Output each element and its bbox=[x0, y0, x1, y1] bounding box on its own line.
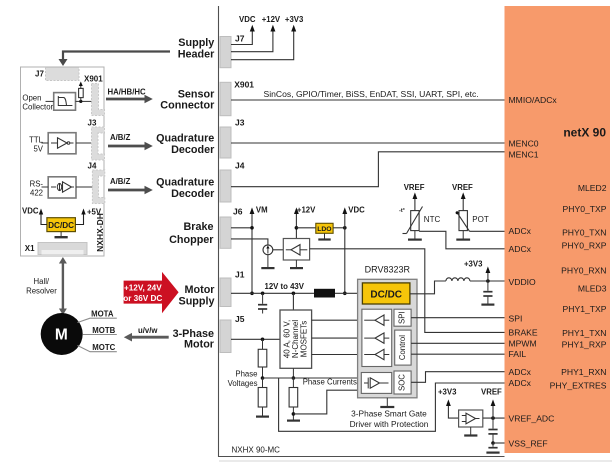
connector J1 (main board) bbox=[220, 278, 231, 307]
svg-text:ADCx: ADCx bbox=[509, 378, 532, 388]
connector J4 (main board) bbox=[220, 170, 231, 202]
svg-text:or 36V DC: or 36V DC bbox=[123, 294, 162, 303]
NXHX 90-MC board border bbox=[219, 6, 505, 457]
wire RS-422 output bbox=[76, 186, 92, 188]
svg-text:MOTB: MOTB bbox=[92, 326, 115, 335]
wire POT tap to ADCx bbox=[470, 230, 505, 232]
wire MPWM bbox=[411, 342, 504, 344]
wire rail to MOSFET box bbox=[292, 293, 294, 310]
svg-text:VM: VM bbox=[256, 206, 268, 215]
node VSS_REF junction bbox=[491, 441, 495, 445]
connector J6 (main board) bbox=[220, 217, 231, 248]
connector J7 (main board) bbox=[220, 37, 231, 68]
svg-text:12V to 43V: 12V to 43V bbox=[265, 282, 305, 291]
svg-text:X901: X901 bbox=[234, 80, 254, 90]
ground (comparator) bbox=[290, 267, 303, 269]
svg-text:MLED2: MLED2 bbox=[578, 183, 607, 193]
svg-text:Control: Control bbox=[398, 335, 407, 360]
svg-text:PHY0_RXN: PHY0_RXN bbox=[561, 266, 606, 276]
svg-text:J4: J4 bbox=[88, 162, 97, 171]
ground (current sensor) bbox=[261, 267, 274, 269]
svg-text:PHY_EXTRES: PHY_EXTRES bbox=[550, 381, 607, 391]
svg-text:VDDIO: VDDIO bbox=[509, 277, 537, 287]
svg-text:Decoder: Decoder bbox=[171, 144, 215, 156]
svg-text:Supply: Supply bbox=[178, 37, 214, 49]
wire J6 pin2 to current sensor bbox=[231, 239, 268, 245]
connector J3 (daughter board) bbox=[92, 127, 105, 160]
connector J7 (daughter board) bbox=[46, 68, 80, 81]
DC/DC converter (DRV8323R) bbox=[362, 283, 410, 304]
svg-text:X1: X1 bbox=[25, 244, 35, 253]
svg-text:PHY0_RXP: PHY0_RXP bbox=[562, 241, 607, 251]
svg-text:X901: X901 bbox=[84, 75, 103, 84]
motor M bbox=[41, 313, 83, 355]
SPI block (DRV8323R) bbox=[394, 309, 411, 326]
svg-text:VREF_ADC: VREF_ADC bbox=[509, 413, 555, 423]
connector J5 (main board) bbox=[220, 320, 231, 353]
capacitor (VREF_ADC) bbox=[492, 418, 494, 429]
LDO regulator bbox=[316, 223, 333, 233]
wire divider column 1 bbox=[262, 339, 264, 349]
wire gate drive 1 bbox=[312, 319, 362, 321]
ground (VDDIO cap) bbox=[481, 304, 494, 306]
svg-text:+5V: +5V bbox=[87, 208, 102, 217]
svg-text:+3V3: +3V3 bbox=[438, 388, 457, 397]
wire comparator bottom to ground bbox=[295, 260, 297, 267]
wire MENC1 bbox=[231, 152, 505, 187]
ground (NTC) bbox=[408, 239, 422, 241]
svg-text:Brake: Brake bbox=[183, 221, 213, 233]
node pull-up junction bbox=[79, 100, 82, 103]
svg-text:SOC: SOC bbox=[398, 374, 407, 391]
svg-text:422: 422 bbox=[30, 188, 43, 197]
ground (VSS_REF) bbox=[486, 452, 499, 454]
svg-text:DC/DC: DC/DC bbox=[370, 289, 402, 300]
wire sensor to ground bbox=[267, 255, 269, 268]
node MOTA bbox=[78, 318, 117, 322]
wire DC/DC to VDDIO bbox=[410, 281, 446, 294]
svg-text:3-Phase Smart Gate: 3-Phase Smart Gate bbox=[351, 408, 427, 418]
arrow A/B/Z (J3) bbox=[108, 145, 146, 148]
svg-text:VDC: VDC bbox=[22, 207, 39, 216]
svg-text:RS-: RS- bbox=[30, 179, 44, 188]
node shunt bottom bbox=[292, 412, 296, 416]
wire VM rail bbox=[251, 214, 253, 294]
current sensor circle bbox=[263, 245, 273, 255]
wire TTL input bbox=[42, 142, 49, 144]
svg-text:Chopper: Chopper bbox=[169, 234, 214, 246]
node VREF junction bbox=[491, 416, 495, 420]
svg-text:MOTC: MOTC bbox=[92, 343, 115, 352]
svg-text:Phase Currents: Phase Currents bbox=[303, 378, 357, 387]
wire +12V to LDO bbox=[296, 227, 315, 229]
page divider line bbox=[219, 460, 612, 462]
svg-text:ADCx: ADCx bbox=[509, 226, 532, 236]
svg-text:HA/HB/HC: HA/HB/HC bbox=[108, 88, 146, 97]
wire inductor to VDDIO pin bbox=[470, 280, 505, 282]
svg-text:Header: Header bbox=[178, 48, 215, 60]
inductor/filter (black) on rail bbox=[314, 289, 335, 298]
connector X901 (main board) bbox=[220, 82, 231, 115]
wire VDC out bbox=[41, 214, 47, 225]
svg-text:PHY1_RXP: PHY1_RXP bbox=[562, 340, 607, 350]
svg-text:Supply: Supply bbox=[179, 295, 215, 307]
wire open collector output bbox=[76, 100, 92, 102]
svg-text:5V: 5V bbox=[33, 144, 43, 153]
wire SPI bbox=[411, 317, 504, 319]
svg-text:VSS_REF: VSS_REF bbox=[509, 438, 548, 448]
svg-text:Quadrature: Quadrature bbox=[156, 133, 214, 145]
ground (DRV8323R) bbox=[386, 398, 388, 406]
svg-text:Hall/: Hall/ bbox=[34, 277, 50, 286]
svg-text:netX 90: netX 90 bbox=[563, 126, 606, 140]
wire SOC to ADCx bbox=[411, 372, 504, 383]
svg-text:NXHX 90-MC: NXHX 90-MC bbox=[232, 446, 281, 455]
svg-text:MENC0: MENC0 bbox=[509, 138, 539, 148]
resistor NTC bbox=[411, 211, 419, 231]
svg-text:MOSFETs: MOSFETs bbox=[299, 321, 308, 357]
svg-text:VREF: VREF bbox=[452, 183, 473, 192]
svg-text:+12V, 24V: +12V, 24V bbox=[124, 284, 162, 293]
connector X901 (daughter board) bbox=[92, 84, 105, 116]
svg-text:NXHX-DH: NXHX-DH bbox=[95, 213, 105, 252]
wire +3V3 (VREF buffer) bbox=[448, 406, 458, 419]
wire NTC to ground bbox=[414, 231, 416, 239]
svg-text:PHY1_TXN: PHY1_TXN bbox=[562, 328, 606, 338]
node VDC/LDO junction bbox=[343, 226, 347, 230]
arrow motor supply (red) bbox=[124, 272, 179, 313]
wire open collector input bbox=[46, 100, 54, 102]
ground (POT) bbox=[456, 239, 470, 241]
svg-text:ADCx: ADCx bbox=[509, 367, 532, 377]
svg-text:-t°: -t° bbox=[399, 208, 405, 214]
node MOTC bbox=[78, 346, 117, 352]
svg-text:ADCx: ADCx bbox=[509, 244, 532, 254]
resistor phase voltage upper bbox=[258, 349, 267, 367]
wire VSS_REF bbox=[493, 442, 505, 444]
svg-text:DC/DC: DC/DC bbox=[48, 221, 74, 230]
connector J4 (daughter board) bbox=[92, 170, 104, 204]
NXHX-DH daughter board border bbox=[21, 67, 105, 256]
svg-text:Open: Open bbox=[22, 94, 41, 103]
wire motor supply rail 12V to 43V bbox=[231, 292, 362, 294]
comparator (brake chopper) bbox=[283, 239, 309, 261]
wire +5V out bbox=[75, 214, 83, 225]
wire RS-422 input bbox=[42, 186, 49, 188]
node divider tap bbox=[261, 376, 265, 380]
svg-text:J1: J1 bbox=[235, 270, 245, 280]
svg-text:Decoder: Decoder bbox=[171, 188, 215, 200]
wire +3V3 (supply header) bbox=[231, 31, 294, 60]
node VM/rail junction bbox=[250, 292, 254, 296]
svg-text:+12V: +12V bbox=[262, 15, 281, 24]
arrow u/v/w bbox=[131, 336, 169, 339]
svg-text:VDC: VDC bbox=[348, 206, 365, 215]
ground (LDO) bbox=[324, 233, 326, 238]
wire shunt sense to DRV buffer bbox=[293, 390, 361, 414]
svg-text:Phase: Phase bbox=[235, 369, 257, 378]
svg-text:J6: J6 bbox=[233, 207, 243, 217]
svg-text:VREF: VREF bbox=[481, 388, 502, 397]
svg-text:MPWM: MPWM bbox=[509, 338, 537, 348]
svg-text:PHY0_TXP: PHY0_TXP bbox=[563, 204, 607, 214]
wire VDC rail bbox=[344, 214, 346, 294]
svg-text:DRV8323R: DRV8323R bbox=[365, 265, 411, 275]
svg-text:Quadrature: Quadrature bbox=[156, 177, 214, 189]
wire comparator output to BRAKE bbox=[310, 249, 505, 333]
svg-text:PHY1_TXP: PHY1_TXP bbox=[563, 304, 607, 314]
wire gate drive 2 bbox=[312, 337, 362, 339]
svg-text:+3V3: +3V3 bbox=[285, 15, 304, 24]
resistor phase voltage lower bbox=[258, 388, 267, 408]
svg-text:TTL: TTL bbox=[29, 135, 44, 144]
svg-text:NTC: NTC bbox=[424, 215, 441, 224]
node VDDIO junction bbox=[486, 279, 490, 283]
svg-text:A/B/Z: A/B/Z bbox=[110, 133, 131, 142]
ground (DC/DC) bbox=[60, 232, 62, 237]
node VDC/rail junction bbox=[343, 292, 347, 296]
netX 90 chip block bbox=[505, 6, 611, 453]
svg-text:Connector: Connector bbox=[160, 100, 215, 112]
TTL 5V block bbox=[48, 133, 76, 154]
wire POT to ground bbox=[462, 231, 464, 239]
wire phase sense to DRV buffer bbox=[263, 377, 362, 379]
svg-text:Collector: Collector bbox=[22, 102, 53, 111]
svg-text:LDO: LDO bbox=[317, 226, 331, 233]
wire MOSFET bottom to shunt bbox=[292, 368, 294, 378]
gate driver buffers block bbox=[362, 309, 392, 366]
wire FAIL bbox=[411, 353, 504, 355]
arrow HA/HB/HC bbox=[106, 98, 146, 101]
svg-text:Motor: Motor bbox=[185, 284, 216, 296]
wire gate drive 3 bbox=[312, 354, 362, 356]
wire buffer out to VREF_ADC bbox=[483, 417, 505, 419]
svg-text:+3V3: +3V3 bbox=[464, 259, 483, 268]
resistor pull-up bbox=[79, 88, 84, 97]
node MOTB bbox=[83, 334, 117, 336]
wire +12V (brake) bbox=[295, 214, 297, 239]
svg-text:+12V: +12V bbox=[297, 206, 316, 215]
svg-text:FAIL: FAIL bbox=[509, 349, 527, 359]
node +12V/LDO junction bbox=[295, 226, 299, 230]
svg-text:Motor: Motor bbox=[184, 339, 215, 351]
svg-text:Voltages: Voltages bbox=[228, 379, 258, 388]
open collector block bbox=[54, 93, 76, 111]
resistor shunt bbox=[289, 388, 298, 408]
wire VREF arrow bbox=[492, 406, 494, 419]
svg-text:SPI: SPI bbox=[398, 311, 407, 324]
svg-text:BRAKE: BRAKE bbox=[509, 327, 538, 337]
svg-text:A/B/Z: A/B/Z bbox=[110, 177, 131, 186]
SOC block (DRV8323R) bbox=[394, 371, 411, 394]
wire +3V3 (VDDIO) arrow bbox=[487, 273, 489, 282]
wire divider tap to ADCx (long) bbox=[279, 378, 505, 431]
svg-text:J4: J4 bbox=[235, 160, 245, 170]
svg-text:POT: POT bbox=[472, 215, 489, 224]
arrow A/B/Z (J4) bbox=[108, 189, 146, 192]
svg-text:J7: J7 bbox=[235, 34, 245, 44]
capacitor (VDDIO) bbox=[487, 281, 489, 291]
svg-text:J3: J3 bbox=[88, 119, 97, 128]
wire VREF (POT) arrow bbox=[462, 199, 464, 211]
svg-text:J3: J3 bbox=[235, 117, 245, 127]
capacitor (rail) bbox=[262, 293, 264, 304]
wire TTL output bbox=[76, 142, 92, 144]
svg-text:MMIO/ADCx: MMIO/ADCx bbox=[509, 95, 558, 105]
op-amp VREF buffer bbox=[459, 410, 483, 427]
inductor (VDDIO filter) bbox=[446, 278, 470, 281]
svg-text:u/v/w: u/v/w bbox=[138, 326, 158, 335]
MOSFET block bbox=[280, 310, 312, 368]
svg-text:Driver with Protection: Driver with Protection bbox=[350, 419, 429, 429]
Control block (DRV8323R) bbox=[395, 330, 411, 365]
wire VDC (supply header) bbox=[231, 31, 252, 45]
svg-text:MENC1: MENC1 bbox=[509, 149, 539, 159]
svg-text:M: M bbox=[55, 327, 68, 344]
wire J5 to MOSFETs bbox=[231, 338, 280, 340]
node rail/VM junction was drawn; node rail/MOSFET junction bbox=[292, 292, 296, 296]
Hall/Resolver double arrow bbox=[62, 263, 64, 310]
wire MMIO/ADCx bbox=[231, 99, 505, 101]
svg-text:J5: J5 bbox=[235, 314, 245, 324]
svg-text:SinCos, GPIO/Timer, BiSS, EnDA: SinCos, GPIO/Timer, BiSS, EnDAT, SSI, UA… bbox=[264, 89, 479, 99]
svg-text:J7: J7 bbox=[35, 70, 44, 79]
svg-text:PHY1_RXN: PHY1_RXN bbox=[561, 367, 606, 377]
wire NTC tap to ADCx bbox=[419, 231, 504, 249]
wire MENC0 bbox=[231, 142, 505, 144]
node shunt top bbox=[292, 376, 296, 380]
resistor POT bbox=[459, 211, 467, 231]
svg-text:SPI: SPI bbox=[509, 313, 523, 323]
svg-text:Resolver: Resolver bbox=[26, 287, 57, 296]
node J5/divider junction bbox=[261, 338, 265, 342]
ground (shunt) bbox=[287, 420, 300, 422]
wire sensor to comparator bbox=[273, 249, 284, 251]
ground (phase voltage divider) bbox=[256, 416, 269, 418]
svg-text:PHY0_TXN: PHY0_TXN bbox=[562, 228, 606, 238]
wire LDO to VDC bbox=[333, 227, 345, 229]
capacitor (VSS_REF) bbox=[492, 443, 494, 447]
wire supply header arrow bbox=[63, 52, 170, 60]
wire VREF (NTC) arrow bbox=[414, 199, 416, 211]
node rail/cap junction bbox=[261, 292, 265, 296]
svg-text:VDC: VDC bbox=[239, 15, 256, 24]
wire J6 pin1 to VM bbox=[231, 227, 252, 229]
ground (VREF buffer) bbox=[470, 427, 472, 435]
svg-text:VREF: VREF bbox=[404, 183, 425, 192]
node VM/J6 junction bbox=[250, 226, 254, 230]
RS-422 block bbox=[48, 177, 76, 198]
connector J3 (main board) bbox=[220, 127, 231, 158]
current sense amp (DRV8323R) bbox=[361, 373, 391, 394]
DC/DC converter (daughter board) bbox=[47, 218, 76, 232]
connector X1 (daughter board) bbox=[38, 243, 87, 255]
wire +12V (supply header) bbox=[231, 31, 273, 52]
svg-text:MLED3: MLED3 bbox=[578, 284, 607, 294]
svg-text:MOTA: MOTA bbox=[91, 310, 114, 319]
